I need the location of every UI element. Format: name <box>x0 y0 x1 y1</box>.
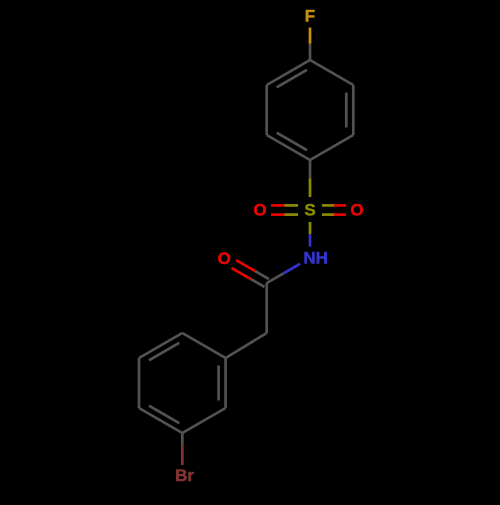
svg-text:O: O <box>218 249 231 268</box>
svg-text:O: O <box>253 201 266 220</box>
svg-text:Br: Br <box>175 466 194 485</box>
svg-text:O: O <box>350 201 363 220</box>
svg-text:F: F <box>305 7 315 26</box>
svg-text:S: S <box>304 201 315 220</box>
svg-text:NH: NH <box>303 249 328 268</box>
